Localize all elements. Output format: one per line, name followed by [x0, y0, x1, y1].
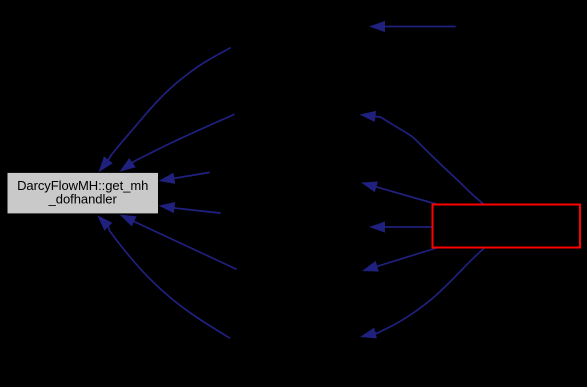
edge red node to M4 [369, 221, 432, 232]
node highlighted caller (red outline) [433, 205, 581, 248]
edge red node to M6 [360, 248, 484, 338]
edge M3 to get_mh_dofhandler [159, 173, 209, 184]
edge M2 to get_mh_dofhandler [120, 115, 235, 172]
edge red node to M2 [360, 111, 484, 205]
node DarcyFlowMH::get_mh_dofhandler (current function, grey) [7, 172, 159, 214]
edge M4 to get_mh_dofhandler [159, 202, 220, 213]
edge M6 to get_mh_dofhandler [97, 215, 229, 338]
edge caller to M1 [369, 21, 455, 32]
edge M5 to get_mh_dofhandler [120, 215, 236, 269]
edge red node to M3 [361, 182, 436, 205]
svg-text:_dofhandler: _dofhandler [48, 191, 118, 206]
edge red node to M5 [362, 248, 438, 272]
edge M1 to get_mh_dofhandler [99, 48, 231, 172]
